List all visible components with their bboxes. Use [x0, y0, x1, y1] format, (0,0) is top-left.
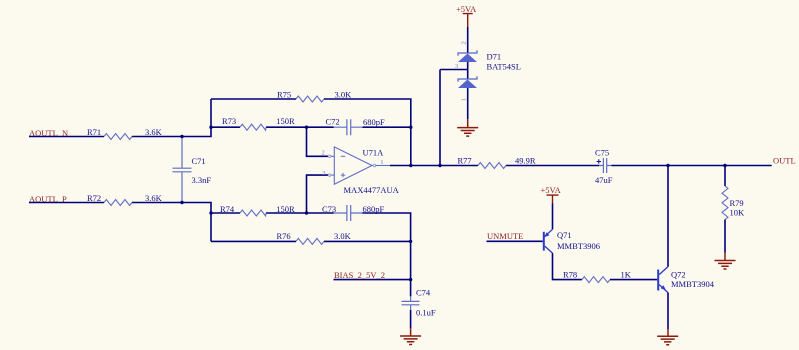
wire UNMUTE to Q71 base: [487, 240, 543, 242]
wire Q72 emitter to ground: [667, 293, 669, 329]
svg-text:U71A: U71A: [363, 147, 385, 157]
junction R73 row left: [209, 126, 212, 129]
svg-text:R76: R76: [277, 231, 291, 241]
junction R76 row right: [409, 240, 412, 243]
junction output at D71 branch: [438, 164, 441, 167]
svg-text:2: 2: [461, 41, 468, 44]
wire Q72 collector to output: [667, 166, 669, 267]
svg-text:49.9R: 49.9R: [515, 156, 536, 166]
svg-text:+5VA: +5VA: [541, 185, 562, 195]
wire +5VA to D71: [467, 27, 469, 53]
svg-text:MMBT3904: MMBT3904: [671, 279, 715, 289]
svg-text:0.1uF: 0.1uF: [416, 308, 436, 318]
wire R74/C73 row: [211, 213, 411, 280]
svg-text:R72: R72: [87, 193, 101, 203]
svg-text:R77: R77: [458, 156, 472, 166]
wire op-amp pin2: [307, 127, 329, 156]
svg-text:3.0K: 3.0K: [335, 90, 353, 100]
resistor R78: [582, 277, 610, 283]
svg-text:680pF: 680pF: [363, 204, 385, 214]
junction Q72 collector output: [666, 164, 669, 167]
svg-text:R75: R75: [277, 90, 291, 100]
wire R73/C72 row: [211, 126, 411, 128]
diode D71 top (schottky): [458, 50, 477, 62]
svg-text:150R: 150R: [276, 204, 295, 214]
svg-text:680pF: 680pF: [363, 117, 385, 127]
resistor R76: [296, 238, 324, 244]
resistor R79 vertical: [722, 186, 728, 220]
junction C71 bottom: [180, 201, 183, 204]
capacitor C72: [334, 119, 363, 135]
svg-text:3.3nF: 3.3nF: [192, 175, 212, 185]
svg-text:OUTL: OUTL: [773, 155, 796, 165]
diode D71 bottom (schottky): [458, 76, 477, 88]
capacitor C71: [173, 137, 192, 203]
svg-text:MAX4477AUA: MAX4477AUA: [344, 185, 400, 195]
junction C72 row right: [409, 126, 412, 129]
wire R79 top: [724, 166, 726, 187]
svg-text:+5VA: +5VA: [456, 4, 477, 14]
wire op-amp pin3: [307, 175, 329, 213]
svg-text:1K: 1K: [621, 270, 632, 280]
wire R79 to ground: [724, 220, 726, 253]
svg-text:3.6K: 3.6K: [145, 127, 163, 137]
capacitor C75 polarized: [599, 158, 611, 173]
wire Q71 collector to R78: [553, 253, 583, 280]
svg-text:3.6K: 3.6K: [145, 193, 163, 203]
svg-text:R71: R71: [87, 127, 101, 137]
resistor R71: [104, 134, 132, 140]
ground symbol D71: [457, 119, 478, 136]
junction R74 row left: [209, 211, 212, 214]
svg-text:C73: C73: [322, 204, 336, 214]
svg-text:UNMUTE: UNMUTE: [487, 231, 523, 241]
wire feedback bottom row R76: [211, 240, 411, 242]
resistor R77: [478, 163, 506, 169]
ground symbol R79: [715, 253, 736, 270]
svg-text:BIAS_2_5V_2: BIAS_2_5V_2: [334, 270, 385, 280]
svg-text:1: 1: [461, 98, 468, 101]
transistor Q72 NPN: [658, 267, 668, 293]
svg-text:47uF: 47uF: [595, 175, 613, 185]
wire +5VA to Q71 emitter: [552, 204, 554, 230]
junction R79 output: [723, 164, 726, 167]
wire AOUTL_N input row: [29, 99, 211, 137]
capacitor C73: [334, 205, 363, 221]
capacitor C74: [402, 280, 420, 329]
svg-text:1: 1: [380, 159, 383, 166]
transistor Q71 PNP: [544, 229, 553, 253]
svg-text:BAT54SL: BAT54SL: [487, 62, 521, 72]
svg-text:C75: C75: [595, 147, 609, 157]
wire op-amp output row: [390, 165, 772, 167]
wire BIAS row: [334, 279, 411, 281]
svg-text:C71: C71: [192, 156, 206, 166]
ground symbol C74: [400, 328, 421, 344]
C75 plus sign: [597, 159, 601, 163]
junction R73 row pin2 drop: [305, 126, 308, 129]
wire R78 to Q72 base: [610, 279, 657, 281]
svg-text:Q71: Q71: [557, 230, 572, 240]
svg-text:MMBT3906: MMBT3906: [557, 241, 600, 251]
resistor R74: [240, 210, 266, 216]
wire D71 to ground: [467, 88, 469, 119]
svg-text:R78: R78: [563, 270, 577, 280]
svg-text:C72: C72: [326, 116, 340, 126]
junction R74 row pin3 drop: [305, 211, 308, 214]
resistor R73: [240, 124, 266, 130]
svg-text:R74: R74: [220, 204, 235, 214]
junction BIAS C74: [409, 278, 412, 281]
svg-text:D71: D71: [487, 52, 502, 62]
svg-text:2: 2: [322, 149, 325, 156]
power +5VA top: [456, 4, 477, 27]
svg-text:10K: 10K: [730, 207, 746, 217]
resistor R72: [104, 200, 132, 206]
svg-text:3.0K: 3.0K: [334, 231, 352, 241]
op-amp U71A: [328, 147, 390, 184]
resistor R75: [296, 96, 324, 102]
svg-text:R73: R73: [222, 116, 236, 126]
wire AOUTL_P input row: [29, 203, 211, 242]
power +5VA Q71: [541, 185, 562, 204]
wire D71 middle node: [440, 62, 468, 166]
svg-text:C74: C74: [416, 288, 431, 298]
wire feedback top row R75: [211, 99, 411, 166]
svg-text:150R: 150R: [276, 116, 295, 126]
ground symbol Q72: [657, 329, 678, 345]
junction output at feedback vertical: [409, 164, 412, 167]
junction C71 top: [180, 135, 183, 138]
